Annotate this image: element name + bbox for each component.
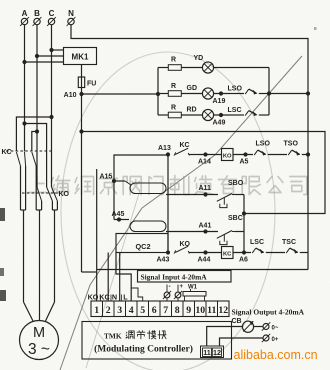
svg-text:A5: A5 xyxy=(240,159,249,166)
node A10 xyxy=(79,92,83,96)
svg-text:12: 12 xyxy=(213,348,221,357)
wire row1 start corner xyxy=(114,155,168,181)
node on A10 riser xyxy=(79,129,83,133)
svg-text:A14: A14 xyxy=(198,159,211,166)
bracket jog phase A xyxy=(22,121,26,125)
svg-text:(Modulating Controller): (Modulating Controller) xyxy=(94,344,193,355)
node row1 to N rail xyxy=(306,152,310,156)
lamp YD yellow xyxy=(181,67,202,69)
wire YD to corner xyxy=(214,67,269,69)
svg-text:Signal Output 4-20mA: Signal Output 4-20mA xyxy=(232,308,305,317)
svg-text:A6: A6 xyxy=(239,257,248,264)
lamp RD red xyxy=(181,114,202,116)
svg-text:Signal Input 4-20mA: Signal Input 4-20mA xyxy=(141,273,208,282)
svg-text:A10: A10 xyxy=(64,92,77,99)
node A15 xyxy=(112,179,116,183)
svg-text:TSO: TSO xyxy=(284,141,299,148)
bracket jog phase B xyxy=(35,129,39,133)
fuse FU xyxy=(81,77,83,94)
wire A10 down xyxy=(81,94,83,272)
lamp GD green xyxy=(181,93,202,95)
wire A11 line xyxy=(166,194,218,196)
wire phase B down xyxy=(36,25,38,187)
wire top bypass to right xyxy=(82,132,326,214)
svg-text:KC: KC xyxy=(180,142,190,149)
svg-text:KO: KO xyxy=(59,191,70,198)
svg-text:3: 3 xyxy=(117,305,122,316)
svg-text:3 ~: 3 ~ xyxy=(28,341,50,358)
node A5 xyxy=(233,154,253,156)
svg-text:7: 7 xyxy=(163,305,168,316)
svg-text:N: N xyxy=(112,293,117,302)
svg-text:KO: KO xyxy=(223,154,232,160)
svg-text:GD: GD xyxy=(187,85,198,92)
svg-text:4: 4 xyxy=(129,305,134,316)
svg-text:C: C xyxy=(49,9,55,18)
wire A15 down to A45 xyxy=(113,181,115,220)
node junction B to MK1 xyxy=(35,54,39,58)
svg-text:LSO: LSO xyxy=(256,141,271,148)
svg-text:9: 9 xyxy=(186,305,191,316)
selector contact capsule upper xyxy=(114,180,125,182)
svg-text:A15: A15 xyxy=(100,174,113,181)
node A6 xyxy=(233,252,251,254)
svg-text:W1: W1 xyxy=(188,285,198,291)
svg-text:QC2: QC2 xyxy=(136,242,151,251)
svg-text:6: 6 xyxy=(152,305,157,316)
svg-text:RD: RD xyxy=(187,107,197,114)
relay coil KC xyxy=(222,247,234,259)
resistor R (YD branch) xyxy=(158,67,169,69)
svg-text:A19: A19 xyxy=(213,98,226,105)
svg-text:SBO: SBO xyxy=(228,180,244,187)
svg-text:11: 11 xyxy=(203,348,211,357)
wire lamp group left riser xyxy=(157,68,159,116)
svg-text:alibaba.com.cn: alibaba.com.cn xyxy=(234,348,318,362)
svg-text:0+: 0+ xyxy=(272,337,279,343)
svg-text:+: + xyxy=(180,284,184,290)
svg-text:B: B xyxy=(34,9,40,18)
signal input label box xyxy=(138,271,232,283)
wire lamp group to N rail xyxy=(269,93,308,95)
wire SBO to A6 riser xyxy=(234,194,244,196)
wire A10 to terminal KO link xyxy=(82,271,97,273)
node junction C to MK1 xyxy=(49,48,53,52)
svg-text:10: 10 xyxy=(195,305,205,316)
svg-text:KO: KO xyxy=(180,241,191,248)
svg-text:A43: A43 xyxy=(157,257,170,264)
svg-text:A44: A44 xyxy=(198,257,211,264)
svg-text:L: L xyxy=(123,293,128,302)
wire step to terminal 5 xyxy=(131,288,143,301)
node A49 xyxy=(214,114,230,116)
svg-text:A41: A41 xyxy=(199,223,212,230)
svg-text:R: R xyxy=(171,57,176,64)
output terminal minus xyxy=(263,335,269,341)
wire terminal N riser xyxy=(119,253,121,302)
node junction A to MK1 xyxy=(22,60,26,64)
svg-text:5: 5 xyxy=(140,305,145,316)
svg-text:FU: FU xyxy=(87,81,96,88)
svg-text:-: - xyxy=(169,283,171,290)
svg-text:N: N xyxy=(68,9,74,18)
svg-text:1: 1 xyxy=(94,305,99,316)
contactor KO reversing contacts xyxy=(22,192,57,194)
terminal strip 1-12 xyxy=(91,301,229,317)
svg-text:A49: A49 xyxy=(213,120,226,127)
svg-text:KO: KO xyxy=(88,293,99,302)
selector switch QC2 xyxy=(116,234,168,253)
svg-text:LSC: LSC xyxy=(250,239,264,246)
wire A41 line xyxy=(166,231,218,233)
svg-text:11: 11 xyxy=(207,305,216,316)
output terminal box 11 12 xyxy=(201,346,224,358)
node SBO riser junction xyxy=(242,211,246,215)
wire A13 to A43 xyxy=(167,155,169,253)
output terminal plus xyxy=(263,324,269,330)
svg-text:MK1: MK1 xyxy=(72,53,89,62)
svg-text:A45: A45 xyxy=(112,211,125,218)
node A13 xyxy=(166,152,170,156)
wire meter to output plus xyxy=(254,326,263,328)
wire SBC to A6 riser xyxy=(234,231,244,233)
wire terminal KO riser xyxy=(96,169,98,301)
wire phase C down xyxy=(51,25,53,187)
node A44 xyxy=(199,252,222,254)
wire output 12 row xyxy=(220,338,263,346)
modulating controller module box xyxy=(82,322,232,360)
svg-text:TMK: TMK xyxy=(104,332,122,341)
wire A10 to lamp group xyxy=(82,93,159,95)
node A41 xyxy=(203,229,207,233)
svg-text:LSO: LSO xyxy=(228,86,243,93)
relay coil KO xyxy=(222,149,234,161)
svg-text:A11: A11 xyxy=(199,185,212,192)
node A43 xyxy=(166,250,170,254)
monitor relay MK1 xyxy=(64,48,97,65)
node A45 xyxy=(117,217,121,221)
wire bottom bus xyxy=(97,269,308,271)
svg-text:R: R xyxy=(171,83,176,90)
contactor KC main contacts xyxy=(6,150,54,152)
svg-text:KC: KC xyxy=(2,149,12,156)
svg-text:TSC: TSC xyxy=(282,239,296,246)
resistor R (RD branch) xyxy=(158,114,169,116)
svg-text:0~: 0~ xyxy=(272,326,279,332)
svg-text:A13: A13 xyxy=(158,145,171,152)
wire terminal L riser xyxy=(116,253,131,302)
selector contact capsule lower xyxy=(130,221,166,232)
input minus terminal symbol xyxy=(166,285,168,293)
input plus terminal symbol xyxy=(177,285,179,293)
svg-text:A: A xyxy=(22,9,28,18)
svg-text:KC: KC xyxy=(223,252,232,258)
wire phase A down xyxy=(24,25,26,152)
resistor R (GD branch) xyxy=(158,93,169,95)
svg-text:12: 12 xyxy=(218,305,228,316)
wire MK1 to fuse xyxy=(81,65,83,78)
wire merge feet to motor lines xyxy=(21,209,26,211)
svg-text:R: R xyxy=(171,105,176,112)
motor M 3-phase xyxy=(20,321,59,360)
node A14 xyxy=(199,154,222,156)
svg-text:SBC: SBC xyxy=(228,215,243,222)
wire output 11 to meter xyxy=(207,327,243,347)
svg-text:8: 8 xyxy=(175,305,180,316)
wire N to right rail xyxy=(71,25,308,270)
svg-text:M: M xyxy=(33,325,45,341)
wire terminal KC riser xyxy=(107,253,109,302)
bracket jog phase C xyxy=(49,115,53,119)
node A11 xyxy=(203,192,207,196)
svg-text:YD: YD xyxy=(194,55,204,62)
svg-text:LSC: LSC xyxy=(228,107,242,114)
svg-text:2: 2 xyxy=(106,305,111,316)
wire lamp right riser xyxy=(268,68,270,116)
node A19 xyxy=(214,93,230,95)
svg-text:CB: CB xyxy=(232,318,242,325)
